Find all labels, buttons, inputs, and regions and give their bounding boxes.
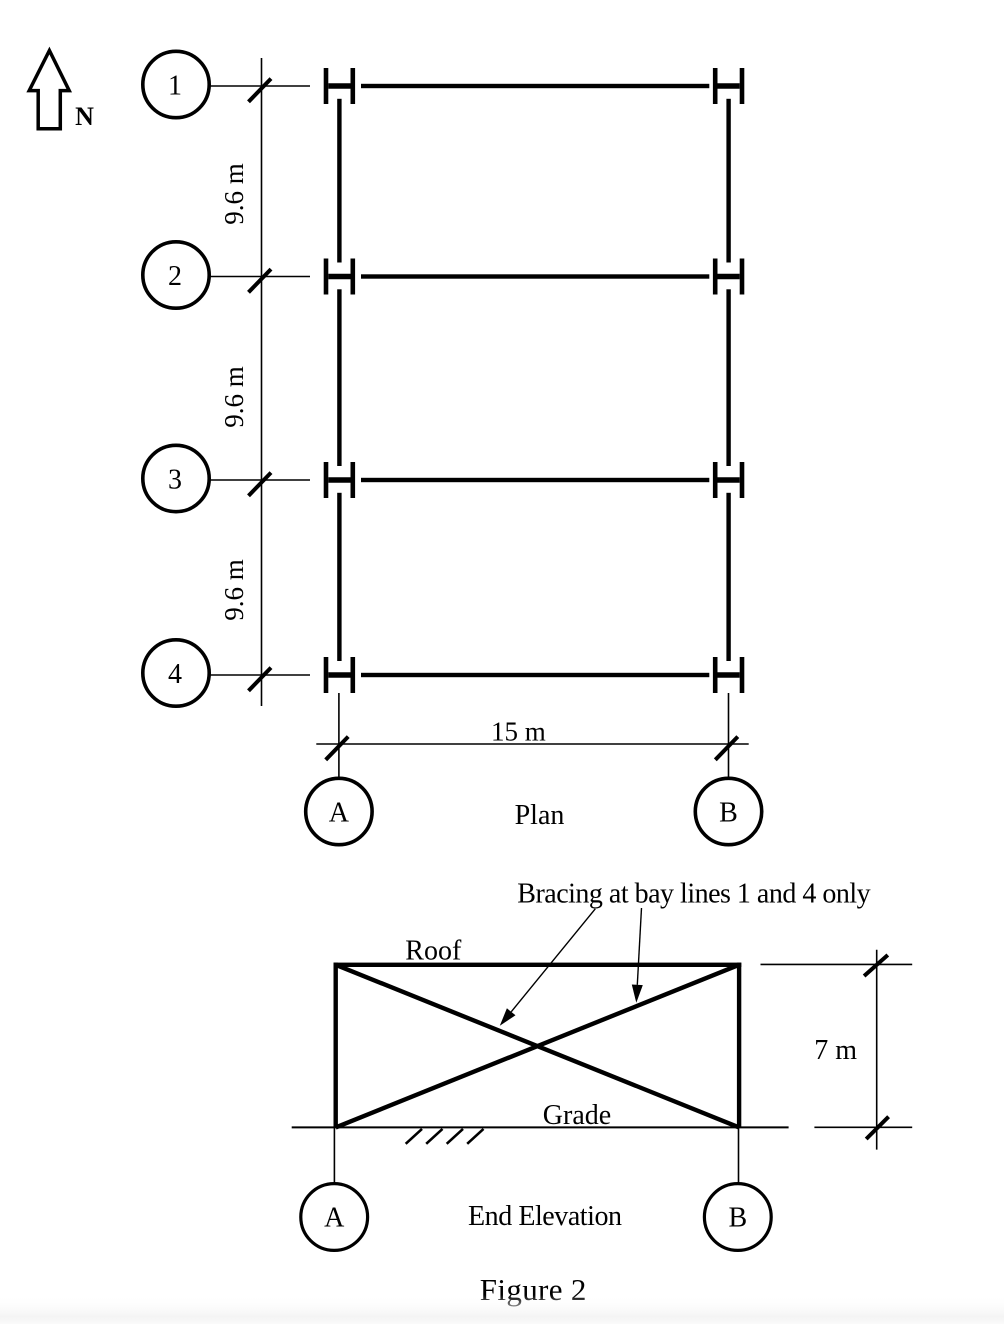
tick bottom (7 m) bbox=[866, 1117, 888, 1139]
svg-text:N: N bbox=[75, 102, 94, 131]
dimension line 15 m bbox=[316, 743, 748, 745]
svg-text:Grade: Grade bbox=[543, 1100, 611, 1131]
leader arrow 1 bbox=[500, 909, 596, 1026]
tick line 2 bbox=[249, 269, 272, 292]
bubble A (elevation) bbox=[301, 1184, 368, 1251]
grid line 4 stub bbox=[210, 674, 311, 676]
svg-text:3: 3 bbox=[168, 465, 182, 496]
ground hatch bbox=[406, 1129, 484, 1144]
elevation column A bbox=[334, 963, 338, 1128]
north arrow bbox=[29, 51, 69, 129]
bubble B (plan) bbox=[695, 778, 761, 844]
column symbol B4 bbox=[713, 657, 744, 693]
elevation column B bbox=[737, 963, 741, 1128]
svg-text:15 m: 15 m bbox=[491, 716, 546, 746]
girder A 1-2 bbox=[337, 99, 341, 263]
girder B 3-4 bbox=[726, 493, 730, 661]
column symbol A1 bbox=[324, 68, 355, 104]
svg-text:7 m: 7 m bbox=[814, 1035, 857, 1066]
svg-text:A: A bbox=[329, 797, 350, 828]
girder B 1-2 bbox=[726, 99, 730, 263]
girder A 2-3 bbox=[337, 289, 341, 466]
grid line (vertical, plan) bbox=[261, 58, 263, 706]
dim line 7 m vertical bbox=[876, 950, 878, 1150]
bubble 1 bbox=[143, 51, 209, 117]
leader arrow 2 bbox=[632, 908, 643, 1003]
svg-text:2: 2 bbox=[168, 261, 182, 292]
svg-text:B: B bbox=[719, 797, 738, 828]
svg-text:Plan: Plan bbox=[515, 800, 565, 831]
svg-text:End Elevation: End Elevation bbox=[468, 1201, 622, 1232]
beam line 4 bbox=[361, 673, 709, 677]
girder A 3-4 bbox=[337, 493, 341, 661]
svg-text:B: B bbox=[728, 1203, 747, 1234]
svg-text:A: A bbox=[324, 1203, 345, 1234]
bubble 3 bbox=[143, 445, 209, 511]
bubble 4 bbox=[143, 640, 209, 706]
beam line 3 bbox=[361, 478, 709, 482]
drop line B (elevation) bbox=[738, 1127, 740, 1183]
girder B 2-3 bbox=[726, 289, 730, 466]
beam line 1 bbox=[361, 84, 709, 88]
grid line 1 stub bbox=[210, 85, 311, 87]
column line B below plan bbox=[728, 693, 730, 779]
bubble 2 bbox=[143, 242, 209, 308]
dim extension top bbox=[761, 963, 913, 965]
svg-text:9.6 m: 9.6 m bbox=[219, 559, 249, 621]
svg-text:4: 4 bbox=[168, 659, 182, 690]
brace TL-BR bbox=[336, 965, 739, 1128]
page bottom shading bbox=[0, 1295, 1004, 1324]
dim extension bottom bbox=[814, 1126, 912, 1128]
bubble B (elevation) bbox=[704, 1184, 771, 1251]
column line A below plan bbox=[338, 693, 340, 779]
tick top (7 m) bbox=[864, 955, 888, 976]
bubble A (plan) bbox=[306, 778, 372, 844]
column symbol B3 bbox=[713, 462, 744, 498]
tick line 3 bbox=[249, 473, 272, 496]
brace BL-TR bbox=[336, 965, 739, 1128]
svg-text:9.6 m: 9.6 m bbox=[219, 163, 249, 225]
tick line 1 bbox=[249, 79, 272, 102]
column symbol A3 bbox=[324, 462, 355, 498]
svg-text:Bracing at bay lines 1 and 4 o: Bracing at bay lines 1 and 4 only bbox=[517, 879, 870, 910]
svg-text:1: 1 bbox=[168, 71, 182, 102]
tick at B bbox=[715, 737, 738, 760]
column symbol A4 bbox=[324, 657, 355, 693]
grade line bbox=[292, 1126, 789, 1128]
column symbol B2 bbox=[713, 259, 744, 295]
drop line A (elevation) bbox=[333, 1127, 335, 1183]
grid line 2 stub bbox=[210, 276, 311, 278]
column symbol B1 bbox=[713, 68, 744, 104]
beam line 2 bbox=[361, 274, 709, 278]
tick line 4 bbox=[249, 668, 272, 691]
grid line 3 stub bbox=[210, 479, 311, 481]
svg-text:9.6 m: 9.6 m bbox=[219, 366, 249, 428]
svg-text:Roof: Roof bbox=[405, 936, 462, 967]
elevation roof beam bbox=[334, 963, 742, 967]
tick at A bbox=[326, 737, 349, 760]
column symbol A2 bbox=[324, 259, 355, 295]
